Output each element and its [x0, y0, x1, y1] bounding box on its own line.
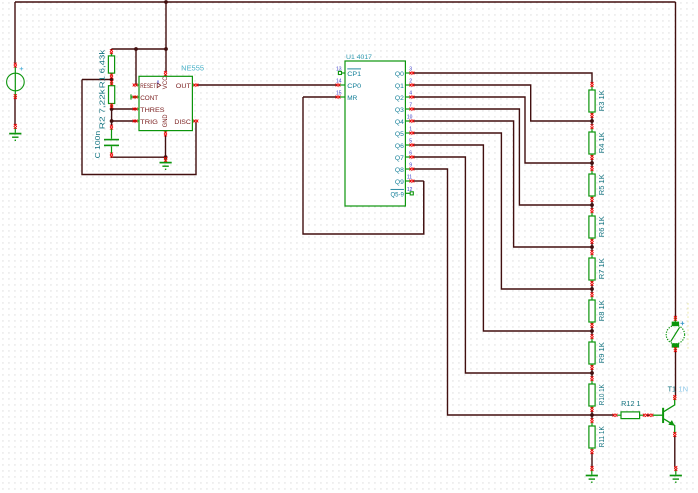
pin 4017 Q6: [410, 143, 415, 146]
ground ground under T1: [670, 469, 682, 483]
wire THRES feed: [112, 108, 136, 110]
wire node to R2 top: [111, 80, 113, 82]
wire ladder junction 5 segment: [591, 285, 593, 294]
pin NE555 OUT: [194, 83, 199, 86]
resistor R11: [589, 423, 595, 451]
pin 4017 Q3: [410, 107, 415, 110]
resistor R9: [589, 339, 595, 367]
pin R3 top: [590, 82, 593, 87]
pin motor +: [674, 316, 677, 321]
svg-text:R11 1K: R11 1K: [597, 426, 606, 447]
pin above node 1: [590, 113, 593, 118]
wire rail down to NE555 VCC: [165, 2, 167, 72]
wire Q8 to ladder node 8: [413, 169, 592, 415]
transistor Q1/T1: [653, 398, 675, 434]
ground ground under R11: [586, 469, 598, 483]
pin ground R11: [590, 466, 593, 471]
pin V1 -: [14, 94, 17, 99]
ground ground under V1: [9, 127, 21, 140]
resistor R7: [589, 255, 595, 283]
wire ladder junction 3 segment: [591, 201, 593, 210]
IC U1 4017 box: [345, 61, 405, 206]
wire T1 emitter to ground: [674, 436, 676, 468]
wire R1 top rail: [111, 48, 166, 50]
svg-text:R5 1K: R5 1K: [597, 174, 606, 195]
pin C1 bottom: [110, 153, 113, 158]
wire motor to T1 collector: [675, 351, 677, 396]
wire R1 bottom to node: [111, 77, 113, 79]
svg-text:R4 1K: R4 1K: [597, 132, 606, 153]
svg-text:Q8: Q8: [395, 167, 404, 174]
svg-text:R7 1K: R7 1K: [597, 258, 606, 279]
svg-text:14: 14: [336, 78, 342, 84]
pin R1 top: [110, 49, 113, 54]
svg-text:Q0: Q0: [395, 71, 404, 78]
pin R11 bottom: [590, 449, 593, 454]
wire THRES-TRIG link: [111, 109, 113, 121]
pin above node 8: [590, 407, 593, 412]
svg-text:R8 1K: R8 1K: [597, 300, 606, 321]
wire ladder junction 2 segment: [591, 159, 593, 168]
pin T1 base: [649, 414, 654, 417]
wire Q4 to ladder node 4: [413, 121, 592, 247]
wire source V1 - to ground: [14, 98, 16, 125]
svg-text:11: 11: [407, 175, 412, 181]
svg-text:GND: GND: [162, 114, 169, 127]
wire Q1 to ladder node 1: [413, 85, 592, 121]
motor plus mark: [681, 321, 685, 325]
svg-text:Q9: Q9: [395, 179, 404, 186]
ground ground under NE555: [160, 157, 172, 169]
svg-text:R2 7,22k: R2 7,22k: [97, 89, 106, 129]
svg-text:VCC: VCC: [162, 76, 169, 89]
svg-text:C 100n: C 100n: [93, 131, 102, 159]
svg-text:NE555: NE555: [181, 66, 204, 73]
no-connect square Q5-9: [410, 192, 413, 195]
pin R2 bottom: [110, 104, 113, 109]
CP1 overline: [347, 68, 361, 70]
wire ladder junction 6 segment: [591, 327, 593, 336]
svg-text:10: 10: [407, 115, 413, 121]
wire Q9 stub row: [413, 180, 424, 182]
pin 4017 Q4: [410, 119, 415, 122]
pin C1 top: [110, 125, 113, 130]
pin 4017 Q1: [410, 83, 415, 86]
resistor R12: [617, 412, 643, 419]
pin below node 4: [590, 250, 593, 255]
svg-text:THRES: THRES: [140, 107, 165, 114]
svg-text:15: 15: [336, 90, 342, 96]
svg-text:R1 6,43k: R1 6,43k: [97, 49, 106, 88]
wire Q6 to ladder node 6: [413, 145, 592, 331]
svg-text:Q4: Q4: [395, 119, 404, 126]
svg-text:TRIG: TRIG: [140, 119, 158, 126]
pin above node 2: [590, 155, 593, 160]
pin ground T1: [674, 466, 677, 471]
resistor R5: [589, 171, 595, 199]
svg-text:Q5-9: Q5-9: [391, 191, 405, 198]
svg-text:4: 4: [409, 91, 412, 97]
svg-text:13: 13: [336, 66, 342, 72]
svg-text:MR: MR: [347, 95, 357, 102]
svg-text:CP0: CP0: [347, 83, 361, 90]
pin 4017 Q7: [410, 155, 415, 158]
svg-text:3: 3: [409, 67, 412, 73]
svg-text:6: 6: [409, 151, 412, 157]
resistor R6: [589, 213, 595, 241]
svg-text:U1 4017: U1 4017: [346, 54, 372, 61]
wire R12 to T1 base link: [647, 414, 650, 416]
svg-text:OUT: OUT: [176, 83, 191, 90]
wire R1-R2 junction row: [82, 79, 112, 81]
pin NE555 DISC: [194, 119, 199, 122]
resistor R10: [589, 381, 595, 409]
pin NE555 CONT: [133, 95, 138, 98]
wire R11 to ground: [591, 453, 593, 467]
pin R1 bottom: [110, 74, 113, 79]
resistor R1: [108, 53, 114, 76]
pin below node 1: [590, 124, 593, 129]
wire ladder junction 1 segment: [591, 117, 593, 126]
svg-text:Q2: Q2: [395, 95, 404, 102]
pin T1 collector: [673, 395, 676, 400]
svg-text:T1: T1: [668, 387, 677, 394]
svg-text:R12 1: R12 1: [621, 401, 641, 408]
no-connect square CP1: [338, 71, 341, 74]
page edge dashed line: [687, 303, 689, 349]
svg-text:12: 12: [407, 187, 413, 193]
capacitor C1 100n: [104, 128, 119, 153]
wire R2 bottom to THRES node: [111, 105, 113, 109]
wire down to RESET: [135, 49, 137, 85]
pin 4017 Q2: [410, 95, 415, 98]
resistor R2: [109, 82, 115, 106]
wire Q5 to ladder node 5: [413, 133, 592, 289]
pin NE555 VCC: [164, 71, 167, 76]
resistor R4: [589, 129, 595, 157]
svg-text:Q6: Q6: [395, 143, 404, 150]
svg-text:1N: 1N: [678, 387, 688, 394]
pin above node 5: [590, 281, 593, 286]
wire Q9 drop: [423, 181, 425, 234]
svg-text:Q1: Q1: [395, 83, 404, 90]
svg-text:2: 2: [409, 79, 412, 85]
svg-text:9: 9: [409, 163, 412, 169]
Q5-9 overline: [391, 188, 404, 190]
resistor R8: [589, 297, 595, 325]
pin V1 +: [14, 63, 17, 68]
pin 4017 MR: [336, 95, 341, 98]
motor M1: [666, 317, 684, 351]
svg-text:R3 1K: R3 1K: [597, 90, 606, 111]
pin below node 2: [590, 166, 593, 171]
svg-text:Q7: Q7: [395, 155, 404, 162]
pin 4017 Q5: [410, 131, 415, 134]
pin below node 5: [590, 292, 593, 297]
pin R2 top: [110, 80, 113, 85]
wire NE555 GND down: [165, 135, 167, 158]
wire TRIG feed: [112, 120, 136, 122]
wire Q3 to ladder node 3: [413, 109, 592, 205]
svg-text:CONT: CONT: [140, 95, 158, 102]
pin NE555 GND: [164, 132, 167, 137]
svg-text:1: 1: [409, 127, 412, 133]
junction dots: [164, 0, 168, 4]
wire C1 bottom to GND node: [112, 156, 166, 157]
wire rail down to motor: [675, 2, 677, 317]
wire top VCC rail: [15, 1, 676, 3]
resistor R3: [589, 87, 595, 115]
pin R12 right: [643, 414, 648, 417]
svg-text:Q3: Q3: [395, 107, 404, 114]
pin 4017 Q8: [410, 167, 415, 170]
voltage source V1: [7, 66, 25, 97]
pin motor -: [674, 347, 677, 352]
pin NE555 RESET: [133, 83, 138, 86]
4017 pin stubs: [339, 73, 410, 193]
wire ladder junction 4 segment: [591, 243, 593, 252]
wire node to R12: [592, 414, 614, 416]
svg-text:CP1: CP1: [347, 71, 361, 78]
RESET clock triangle: [157, 83, 161, 88]
wire stub R1 top: [110, 49, 112, 51]
svg-text:Q5: Q5: [395, 131, 404, 138]
wire OUT to CP0: [197, 84, 337, 86]
pin below node 7: [590, 376, 593, 381]
pin 4017 CP0: [336, 83, 341, 86]
pin 4017 Q0: [410, 71, 415, 74]
pin below node 3: [590, 208, 593, 213]
pin NE555 TRIG: [133, 119, 138, 122]
wire Q9-MR reset loop: [303, 97, 424, 234]
svg-text:R10 1K: R10 1K: [597, 384, 606, 405]
svg-text:8: 8: [157, 79, 160, 84]
pin above node 6: [590, 323, 593, 328]
wire ladder junction 7 segment: [591, 369, 593, 378]
op-amp U2 NE555 box: [139, 76, 192, 130]
wire rail to source V1 +: [14, 2, 16, 64]
wire TRIG node to C1: [111, 121, 113, 126]
pin NE555 THRES: [133, 107, 138, 110]
NE555 pin stubs: [131, 75, 195, 133]
svg-text:+: +: [19, 64, 24, 73]
wire ladder junction 8 segment: [591, 411, 593, 420]
pin below node 6: [590, 334, 593, 339]
pin above node 3: [590, 197, 593, 202]
svg-text:DISC: DISC: [174, 119, 190, 126]
svg-text:7: 7: [409, 103, 412, 109]
pin R12 left: [613, 414, 618, 417]
svg-text:R9 1K: R9 1K: [597, 342, 606, 363]
pin above node 4: [590, 239, 593, 244]
wire Q0 to R3 top: [413, 73, 592, 83]
wire Q7 to ladder node 7: [413, 157, 592, 373]
pin ground NE555: [164, 157, 167, 162]
pin below node 8: [590, 418, 593, 423]
pin ground V1: [14, 124, 17, 129]
pin T1 emitter: [673, 432, 676, 437]
svg-text:5: 5: [409, 139, 412, 145]
pin above node 7: [590, 365, 593, 370]
svg-text:R6 1K: R6 1K: [597, 216, 606, 237]
pin 4017 Q9: [410, 179, 415, 182]
svg-text:RESET: RESET: [140, 83, 156, 90]
wire MR feed: [303, 96, 337, 98]
wire Q2 to ladder node 2: [413, 97, 592, 163]
wire DISC loop: [82, 80, 196, 175]
